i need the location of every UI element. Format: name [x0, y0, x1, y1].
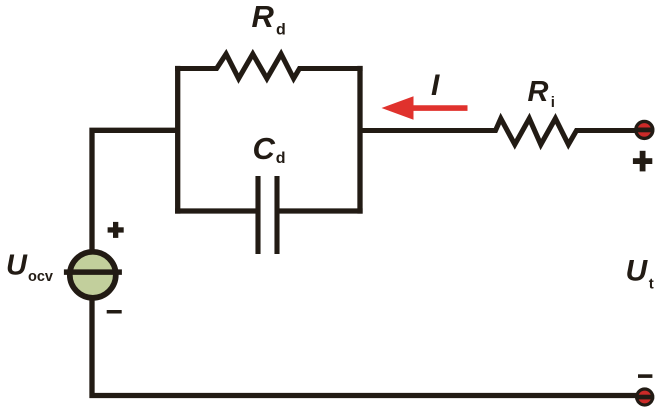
svg-text:U: U	[6, 250, 28, 282]
plus sign at top terminal	[633, 151, 652, 172]
minus sign at source	[107, 310, 122, 314]
svg-text:U: U	[626, 255, 649, 288]
voltage source U1 (Uocv)	[64, 252, 122, 298]
wire: box bottom left segment	[175, 208, 258, 213]
svg-text:R: R	[528, 76, 549, 108]
resistor R2 (Ri) with middle-right wire	[360, 119, 640, 145]
plus sign at source	[108, 222, 124, 238]
terminal node + (top right)	[635, 121, 655, 138]
wire: left vertical + bottom horizontal loop	[92, 130, 642, 395]
wire: RC box right edge	[357, 66, 362, 214]
svg-text:I: I	[431, 69, 440, 102]
wire: box bottom right segment	[277, 208, 363, 213]
svg-text:d: d	[276, 22, 286, 39]
svg-text:t: t	[649, 276, 654, 293]
svg-text:R: R	[252, 0, 275, 34]
capacitor C1 (Cd) plates	[258, 176, 277, 254]
current arrow I	[382, 96, 468, 120]
svg-text:C: C	[253, 131, 276, 166]
wire: RC box left edge	[175, 66, 180, 214]
svg-text:i: i	[551, 94, 555, 111]
svg-text:ocv: ocv	[28, 269, 53, 285]
terminal node - (bottom right)	[635, 389, 654, 405]
minus sign at bottom terminal	[638, 374, 652, 378]
resistor R1 (Rd) with top edge wires	[175, 54, 363, 79]
svg-text:d: d	[276, 150, 286, 167]
